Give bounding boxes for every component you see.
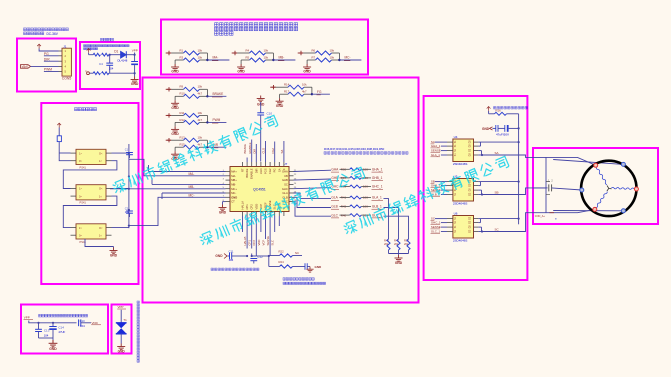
svg-text:GND: GND [110, 253, 118, 257]
svg-text:R3: R3 [180, 55, 184, 59]
U6 pin 4 [447, 231, 453, 233]
power flag VCC in box A [37, 44, 41, 48]
svg-text:GHC: GHC [282, 187, 288, 191]
svg-text:MB+: MB+ [231, 178, 237, 182]
svg-text:10k: 10k [302, 83, 307, 87]
U7 right pin 22 [289, 175, 294, 177]
capacitor C16 pair [493, 127, 496, 129]
svg-text:DIR: DIR [254, 168, 258, 173]
svg-text:PS41: PS41 [80, 165, 87, 169]
svg-text:C1: C1 [125, 148, 129, 152]
svg-text:10k: 10k [198, 136, 203, 140]
wire DIR [44, 60, 59, 62]
svg-text:MA-: MA- [189, 172, 195, 176]
U5 pin 4 [447, 194, 453, 196]
svg-text:GND: GND [219, 210, 227, 214]
U7 right pin 25 [289, 188, 294, 190]
group box A: power/signal input connector [17, 39, 76, 92]
svg-text:VDD: VDD [257, 240, 261, 246]
group box D: main controller [143, 78, 419, 303]
svg-text:FG: FG [317, 90, 322, 94]
op-amp/controller U7 QC4951 [230, 167, 289, 212]
svg-text:10k: 10k [198, 85, 203, 89]
svg-text:MC-: MC- [345, 56, 351, 60]
wires from U7 bottom pins down [242, 216, 244, 232]
hall U1 wiring [112, 152, 129, 154]
wire bottom to rail [109, 72, 135, 74]
motor M1 stator circle [581, 161, 636, 216]
svg-text:10k: 10k [198, 55, 203, 59]
svg-text:47UF: 47UF [58, 330, 65, 334]
svg-text:4k7: 4k7 [198, 118, 203, 122]
ground of MC- divider [306, 60, 308, 64]
svg-text:GHC_1: GHC_1 [431, 220, 441, 224]
hall sensor U3 [76, 224, 106, 239]
svg-text:C4: C4 [99, 62, 103, 66]
svg-text:PG: PG [273, 169, 277, 173]
svg-text:DIR: DIR [253, 149, 257, 154]
note box H [39, 314, 88, 317]
U7 bottom pin 5 [260, 212, 262, 217]
junction [338, 53, 340, 60]
junction [206, 53, 208, 60]
junction to R22 [255, 254, 257, 257]
svg-text:HALLB: HALLB [243, 237, 247, 246]
J1 pin 1 stub [59, 50, 63, 52]
svg-text:GND: GND [231, 195, 237, 199]
U7 right pin 23 [289, 179, 294, 181]
U7 left pin 3 [226, 179, 231, 181]
svg-text:GND: GND [303, 70, 311, 74]
U7 right pin 24 [289, 183, 294, 185]
svg-text:GND: GND [237, 70, 245, 74]
group box I: TVS protection [112, 305, 132, 354]
svg-text:GLB: GLB [331, 205, 337, 209]
svg-text:GND: GND [315, 265, 323, 269]
svg-text:NC: NC [295, 251, 299, 255]
U7 left pin 1 [226, 171, 231, 173]
svg-text:2SD4046S: 2SD4046S [453, 162, 468, 166]
svg-text:GND: GND [49, 347, 57, 351]
svg-text:BRAKE: BRAKE [243, 144, 247, 154]
capacitor C11 104 [228, 255, 230, 257]
U7 right pin 26 [289, 192, 294, 194]
svg-text:104: 104 [109, 66, 114, 70]
ground box B [134, 73, 136, 76]
svg-text:ENABLE: ENABLE [250, 168, 254, 179]
J1 pin 4 stub [59, 65, 63, 67]
U6 pin 1 [447, 218, 453, 220]
U4 pin 3 [447, 150, 453, 152]
U7 bottom pin 2 [246, 212, 248, 217]
junction [311, 87, 313, 94]
svg-text:MA-: MA- [231, 174, 236, 178]
U6 pin 3 [447, 226, 453, 228]
svg-text:GND: GND [171, 106, 179, 110]
svg-text:HALLA: HALLA [241, 201, 245, 210]
junction [206, 89, 208, 96]
watermark: company name (WM2) [199, 166, 366, 247]
wires from U7 top pins up [246, 158, 248, 163]
vertical note right of box I [137, 301, 139, 362]
svg-text:GLA_1: GLA_1 [372, 196, 382, 200]
U7 left pin 8 [226, 201, 231, 203]
inductor L1 (top) [89, 54, 94, 56]
svg-text:R4: R4 [246, 48, 250, 52]
note box C [215, 23, 298, 27]
svg-text:MC-: MC- [189, 193, 195, 197]
svg-text:R7: R7 [312, 55, 316, 59]
svg-text:2SD4046S: 2SD4046S [453, 239, 468, 243]
svg-text:CP2: CP2 [252, 240, 256, 246]
svg-text:CP1: CP1 [248, 240, 252, 246]
U7 top pin 7 [269, 162, 271, 167]
svg-text:DC-36V: DC-36V [47, 32, 59, 36]
svg-text:O<: O< [99, 188, 103, 191]
electrolytic C5 [134, 55, 136, 62]
svg-text:UB: UB [284, 174, 288, 178]
svg-text:SENSE: SENSE [266, 236, 270, 246]
U7 left pin 7 [226, 196, 231, 198]
svg-text:VPP: VPP [24, 316, 30, 320]
transistor pair U4 2SD4046S [453, 139, 474, 162]
wire from U1 pin2 top rail [70, 152, 72, 154]
svg-text:GND: GND [215, 254, 223, 258]
svg-text:PWM: PWM [213, 118, 221, 122]
U7 bottom pin 6 [265, 212, 267, 217]
U4 drain wires to VPP rail [478, 141, 480, 143]
svg-text:GND: GND [482, 127, 490, 131]
note: input description [24, 28, 69, 31]
svg-text:GLA_1: GLA_1 [431, 153, 440, 157]
output net SB [478, 194, 482, 196]
label: power filter [101, 38, 114, 41]
svg-text:SA: SA [280, 150, 284, 154]
ground of MB- divider [240, 60, 242, 64]
wire down from vcc [88, 53, 90, 55]
svg-text:C11: C11 [229, 250, 234, 254]
svg-text:VPP: VPP [132, 49, 138, 53]
capacitor C10 [260, 102, 262, 113]
output net SA [478, 154, 482, 156]
svg-text:CON5: CON5 [62, 77, 72, 81]
VPP rail in box F [518, 128, 520, 224]
power flag box F [487, 107, 491, 111]
svg-text:FG2: FG2 [268, 168, 272, 174]
wire MB- from hall to U7 [110, 188, 226, 190]
ground under U7 left [223, 201, 226, 203]
motor phase diagonals [546, 157, 596, 165]
svg-text:10k: 10k [198, 48, 203, 52]
svg-text:O<: O< [99, 152, 103, 155]
polarized cap/fuse in box E [57, 136, 61, 142]
junction [206, 140, 208, 147]
svg-text:J1: J1 [63, 44, 66, 48]
svg-text:R24: R24 [279, 260, 285, 264]
svg-text:10k: 10k [264, 48, 269, 52]
wire diode to right rail [126, 54, 134, 56]
power flag VCC in box B [87, 48, 91, 52]
U7 top pin 4 [255, 162, 257, 167]
motor windings (coils) [596, 167, 607, 185]
U7 bottom pin 10 [283, 212, 285, 217]
J1 pin 5 stub [59, 71, 63, 73]
svg-text:GLB_1: GLB_1 [372, 205, 382, 209]
port PWM input [167, 113, 171, 117]
svg-text:R1: R1 [180, 48, 184, 52]
svg-text:SA: SA [277, 168, 281, 172]
svg-text:R9: R9 [180, 85, 184, 89]
U5 pin 1 [447, 181, 453, 183]
motor star point [607, 186, 612, 192]
svg-text:SENSE: SENSE [431, 148, 441, 152]
svg-text:GND: GND [131, 82, 139, 86]
capacitor C13 104 [38, 323, 40, 330]
svg-text:C13: C13 [44, 329, 50, 333]
watermark: company name (WM1) [112, 114, 279, 195]
group box B: power filter [80, 42, 140, 89]
svg-text:QC4951: QC4951 [253, 187, 266, 191]
svg-text:10k: 10k [198, 111, 203, 115]
U6 drain wires to VPP rail [478, 218, 480, 220]
port FG input [271, 85, 275, 89]
ground of MA- divider [174, 60, 176, 64]
transistor pair U5 2SD4046S [453, 179, 474, 202]
hall supply rail [59, 152, 70, 154]
svg-text:R22: R22 [279, 249, 285, 253]
U7 right pin 21 [289, 171, 294, 173]
svg-text:GLA: GLA [331, 196, 338, 200]
U6 pin 2 [447, 222, 453, 224]
junction dots on rail [128, 175, 130, 177]
port MA- input [167, 51, 171, 55]
jumper J2 in motor box [533, 187, 548, 189]
svg-text:VCP: VCP [261, 240, 265, 246]
svg-text:MC-: MC- [231, 191, 236, 195]
hall U3 wiring [112, 227, 129, 229]
svg-text:R36,R37,R39,R41,R45,R48,R46,R3: R36,R37,R39,R41,R45,R48,R46,R38,R43,R50 [324, 147, 385, 151]
svg-text:GHB_1: GHB_1 [372, 176, 383, 180]
svg-text:BRAKE: BRAKE [213, 92, 224, 96]
svg-text:GHC_1: GHC_1 [372, 185, 383, 189]
U7 bottom pin 1 [242, 212, 244, 217]
svg-text:GND: GND [395, 261, 403, 265]
svg-text:GHA_1: GHA_1 [372, 168, 383, 172]
svg-text:C10: C10 [80, 319, 86, 323]
svg-text:4k7: 4k7 [198, 143, 203, 147]
U7 left pin 5 [226, 188, 231, 190]
motor terminal dots [594, 163, 598, 167]
watermark: company name (WM3) [343, 155, 510, 236]
U4 pin 4 [447, 154, 453, 156]
U7 top pin 6 [265, 162, 267, 167]
svg-text:R6: R6 [312, 48, 316, 52]
svg-text:10k: 10k [330, 48, 335, 52]
U7 bottom pin 8 [274, 212, 276, 217]
svg-text:DL4148: DL4148 [118, 58, 128, 62]
svg-text:CP1: CP1 [245, 204, 249, 210]
port VBAT [21, 65, 31, 69]
svg-text:U6: U6 [454, 212, 458, 216]
svg-text:GLC_1: GLC_1 [431, 229, 441, 233]
ground box H [52, 338, 54, 340]
ground of FG divider [279, 94, 281, 98]
svg-text:D1: D1 [114, 49, 118, 53]
U7 top pin 10 [283, 162, 285, 167]
connector J1 [62, 48, 71, 76]
port MC- input [299, 51, 303, 55]
wires rows down to pulldowns [384, 199, 389, 239]
U7 bottom pin 4 [255, 212, 257, 217]
svg-text:GND: GND [276, 104, 284, 108]
svg-text:MB-: MB- [231, 183, 236, 187]
svg-text:PS41: PS41 [80, 201, 87, 205]
wire PWM [44, 71, 59, 73]
svg-text:U4: U4 [454, 135, 458, 139]
label hall section [75, 108, 97, 111]
svg-text:VPP: VPP [118, 305, 124, 309]
port MB- input [233, 51, 237, 55]
group box C: hall pull-up resistors [161, 20, 368, 75]
svg-text:CLD: CLD [259, 168, 263, 173]
group box G: motor [533, 148, 658, 224]
group box E: hall circuit [41, 103, 138, 284]
group box H: bulk capacitors [21, 305, 108, 354]
ground of PWM divider [174, 122, 176, 126]
svg-text:RT: RT [241, 168, 245, 172]
ground box I [117, 344, 125, 350]
svg-text:104: 104 [229, 258, 234, 262]
note inside box B [84, 45, 130, 47]
svg-text:GLC: GLC [331, 213, 338, 217]
U5 pin 2 [447, 185, 453, 187]
U7 left pin 6 [226, 192, 231, 194]
resistor R16 [488, 111, 490, 114]
wire MA- from hall to U7 [129, 159, 226, 176]
svg-text:CP2: CP2 [250, 204, 254, 210]
wire vcc to pin1 [39, 49, 58, 52]
svg-text:R5: R5 [246, 55, 250, 59]
inductor bottom [89, 72, 93, 74]
wire U2 out crossing to box D [109, 188, 111, 190]
svg-text:ENABLE: ENABLE [248, 142, 252, 153]
ground of BRAKE divider [174, 96, 176, 100]
svg-text:104: 104 [80, 324, 85, 328]
svg-text:10k: 10k [330, 55, 335, 59]
series capacitor C19 [79, 319, 81, 326]
U7 bottom pin 3 [251, 212, 253, 217]
wire VBAT to pin4 [31, 65, 59, 67]
svg-text:VBAT: VBAT [22, 64, 29, 68]
svg-text:MB-: MB- [279, 56, 285, 60]
svg-text:BRAKE: BRAKE [245, 168, 249, 177]
hall sensor U1 [76, 149, 106, 164]
svg-text:GND: GND [118, 350, 126, 354]
U7 left pin 2 [226, 175, 231, 177]
svg-text:GND: GND [171, 70, 179, 74]
svg-text:MA+: MA+ [231, 170, 237, 174]
svg-text:2SD4046S: 2SD4046S [453, 202, 468, 206]
rail vertical x128.9 [128, 144, 130, 228]
U5 pin 3 [447, 189, 453, 191]
U7 bottom pin 7 [269, 212, 271, 217]
port DIR input [167, 138, 171, 142]
svg-text:MA-: MA- [213, 56, 219, 60]
group box F: gate drivers [424, 96, 528, 280]
ground of DIR divider [174, 147, 176, 151]
junction [272, 53, 274, 60]
svg-text:GHB: GHB [282, 178, 288, 182]
wire PG [44, 55, 59, 57]
svg-text:X: X [282, 168, 286, 170]
svg-text:SC: SC [284, 183, 288, 187]
svg-text:C14: C14 [58, 326, 64, 330]
motor winding hub [545, 157, 547, 212]
ground box E bottom [85, 239, 114, 247]
svg-text:SENSE: SENSE [431, 225, 441, 229]
svg-text:4k7: 4k7 [198, 92, 203, 96]
svg-text:CON_A+: CON_A+ [535, 215, 546, 218]
stub wires MA+ MB+ MC+ [149, 171, 226, 173]
svg-text:SLC: SLC [271, 240, 275, 245]
U5 drain wires to VPP rail [478, 181, 480, 183]
U4 pin 2 [447, 145, 453, 147]
U7 top pin 9 [278, 162, 280, 167]
svg-text:104: 104 [44, 334, 49, 338]
ground of pulldowns [398, 254, 400, 256]
C15 and ground right [305, 263, 307, 269]
U7 top pin 5 [260, 162, 262, 167]
svg-text:MC+: MC+ [231, 187, 237, 191]
svg-text:CT: CT [231, 200, 235, 204]
svg-text:MB-: MB- [189, 185, 195, 189]
svg-text:GND: GND [171, 132, 179, 136]
svg-text:GHA_1: GHA_1 [431, 144, 441, 148]
svg-text:O<: O< [99, 227, 103, 230]
wires U7 to gate rows [294, 170, 332, 171]
hall sensor U2 [76, 185, 106, 200]
svg-text:10k: 10k [264, 55, 269, 59]
U7 right pin 28 [289, 201, 294, 203]
svg-text:FG2: FG2 [271, 148, 275, 154]
U7 top pin 3 [251, 162, 253, 167]
junction [206, 115, 208, 122]
svg-text:GLB: GLB [282, 195, 288, 199]
svg-text:4k7: 4k7 [302, 90, 307, 94]
notes bottom box D [211, 268, 259, 270]
U7 top pin 1 [242, 162, 244, 167]
svg-text:47uF/50V: 47uF/50V [496, 132, 509, 136]
hall U2 wiring [112, 188, 129, 190]
J1 pin 3 stub [59, 60, 63, 62]
U4 pin 1 [447, 141, 453, 143]
ground above C10 [257, 96, 265, 102]
capacitor C12 [251, 254, 253, 257]
U7 top pin 8 [274, 162, 276, 167]
svg-text:R16: R16 [496, 109, 502, 113]
U7 bottom pin 9 [278, 212, 280, 217]
svg-text:GLA: GLA [282, 191, 288, 195]
port bottom-left box B [87, 72, 90, 75]
J1 pin 2 stub [59, 55, 63, 57]
svg-text:GHA: GHA [331, 168, 339, 172]
wire to diode [110, 54, 121, 56]
svg-text:VDD: VDD [254, 204, 258, 210]
capacitor C14 47uF [52, 323, 54, 327]
power flag in box E [57, 123, 61, 127]
svg-text:CLD: CLD [262, 148, 266, 154]
port BRAKE input [167, 87, 171, 91]
